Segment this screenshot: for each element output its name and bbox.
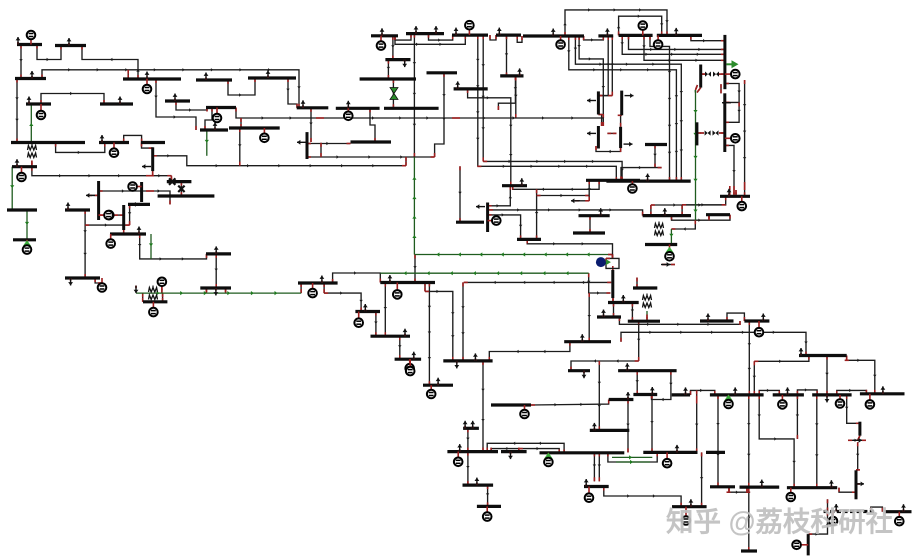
generator [110, 234, 112, 244]
bus [863, 510, 867, 513]
generator [396, 283, 398, 295]
generator [666, 452, 668, 463]
wire [608, 452, 657, 462]
load arrow [762, 319, 764, 322]
wire [489, 342, 570, 361]
generator [409, 359, 411, 368]
wire [370, 108, 375, 142]
wire [871, 507, 883, 512]
bus [360, 77, 416, 80]
wire [142, 143, 153, 149]
wire [607, 132, 616, 134]
wire [856, 483, 860, 485]
wire [727, 491, 751, 493]
generator [797, 544, 809, 546]
wire [333, 273, 381, 283]
wire [42, 70, 299, 108]
load arrow [146, 77, 148, 80]
wire [20, 45, 22, 79]
bus [657, 34, 702, 37]
wire [565, 10, 667, 36]
wire [527, 239, 612, 258]
bus [523, 34, 584, 37]
bus [706, 213, 730, 216]
bus [443, 359, 492, 362]
breaker X symbol [178, 186, 184, 192]
wire [839, 488, 856, 493]
load arrow [68, 43, 70, 46]
load arrow [600, 213, 602, 216]
bus (vertical) [597, 91, 600, 114]
load arrow [86, 194, 95, 196]
breaker X symbol [169, 178, 175, 184]
wire [429, 34, 453, 41]
generator [524, 405, 526, 414]
bus [824, 510, 828, 513]
bus [812, 393, 851, 396]
load arrow [734, 392, 736, 395]
green bowtie symbol [390, 88, 398, 94]
wire (green flow) [30, 104, 32, 143]
bus [110, 232, 146, 235]
wire [513, 180, 599, 189]
wire [32, 167, 150, 176]
load arrow [413, 357, 415, 360]
wire [124, 135, 142, 142]
bus [744, 319, 769, 322]
wire [176, 101, 207, 110]
generator [380, 36, 382, 46]
wire (green flow) [380, 272, 588, 274]
wire [589, 273, 611, 293]
wire [467, 452, 469, 486]
bus [584, 485, 609, 488]
wire [696, 85, 698, 90]
shunt reactor zigzag [655, 224, 664, 229]
wire (green flow) [206, 130, 208, 156]
bus [128, 203, 150, 206]
wire [127, 70, 129, 79]
wire [239, 128, 241, 166]
load arrow [626, 368, 628, 371]
load arrow [624, 143, 633, 145]
wire [88, 194, 99, 196]
wire [323, 283, 325, 293]
wire [320, 143, 322, 157]
bus [229, 126, 280, 129]
wire [307, 156, 435, 158]
load arrow [853, 439, 862, 441]
wire [691, 390, 715, 395]
bus (vertical) [723, 93, 726, 152]
wire [142, 293, 144, 302]
wire [517, 35, 522, 42]
bus [100, 102, 133, 105]
load arrow [215, 251, 217, 254]
bus [540, 451, 625, 454]
bus [645, 143, 667, 146]
svg-text:知乎 @荔枝科研社: 知乎 @荔枝科研社 [666, 506, 893, 537]
load arrow [903, 509, 905, 512]
bus [502, 184, 527, 187]
wire [808, 512, 827, 535]
load arrow [647, 179, 649, 182]
load arrow [28, 102, 30, 105]
generator [158, 278, 167, 287]
wire [697, 88, 701, 93]
generator [669, 245, 671, 257]
wire [324, 293, 361, 311]
generator [631, 181, 633, 188]
wire [156, 79, 196, 130]
bus [633, 286, 657, 289]
bus [248, 76, 296, 79]
wire [153, 156, 406, 166]
bus [590, 429, 630, 432]
wire [719, 73, 725, 75]
wire [748, 321, 750, 395]
wire [459, 166, 461, 222]
generator [101, 278, 103, 288]
wire [598, 95, 612, 97]
wire [644, 35, 725, 60]
load arrow [587, 100, 596, 102]
wire [598, 36, 608, 96]
wire [856, 442, 858, 470]
bus [13, 238, 36, 241]
wire [16, 79, 18, 143]
bus [672, 505, 707, 508]
wire [753, 361, 755, 395]
bus [298, 281, 338, 284]
load arrow [585, 484, 587, 487]
bus (vertical) [620, 91, 623, 116]
generator [358, 312, 360, 323]
generator [216, 108, 218, 119]
wire [691, 35, 725, 40]
wire [456, 118, 603, 126]
load arrow [437, 383, 439, 386]
wire [612, 298, 614, 302]
wire [579, 36, 603, 118]
bus [456, 221, 484, 224]
bus [837, 510, 841, 513]
wire [727, 313, 744, 321]
bus [196, 78, 232, 81]
load arrow [761, 485, 763, 488]
bus [371, 34, 398, 37]
load arrow [627, 397, 629, 400]
bus [463, 427, 479, 430]
bus [579, 214, 610, 217]
wire [310, 108, 312, 142]
wire [515, 77, 517, 119]
wire [846, 356, 848, 361]
wire [571, 361, 639, 371]
blue node dot [596, 257, 606, 267]
bus (vertical) [855, 470, 858, 499]
wire [476, 35, 478, 166]
wire [531, 400, 609, 406]
load arrow [267, 76, 269, 79]
wire [672, 215, 731, 221]
wire (green flow) [695, 205, 697, 220]
load arrow [302, 105, 304, 108]
load arrow [583, 371, 585, 374]
generator [781, 395, 783, 405]
wire [611, 36, 613, 96]
bus [598, 34, 613, 37]
load arrow [404, 60, 406, 63]
generator [146, 79, 148, 89]
bus (vertical) [807, 534, 810, 555]
wire [82, 46, 138, 80]
wire [31, 161, 33, 167]
wire [462, 282, 464, 361]
bus (vertical) [122, 205, 125, 230]
load arrow [707, 319, 709, 322]
bus (vertical) [306, 132, 309, 159]
bus [720, 195, 750, 198]
bus (vertical) [695, 122, 698, 145]
load arrow [16, 164, 18, 167]
bus [55, 44, 86, 47]
load arrow [826, 395, 828, 398]
load arrow [459, 449, 461, 452]
load arrow [690, 504, 692, 507]
wire [848, 439, 866, 441]
wire [464, 281, 611, 283]
wire [827, 499, 829, 511]
bus [773, 393, 804, 396]
load arrow [389, 280, 391, 283]
load arrow [364, 309, 366, 312]
wire [123, 223, 125, 234]
bus [501, 450, 527, 453]
wire [682, 204, 726, 206]
bus [857, 510, 861, 513]
load arrow [404, 334, 406, 337]
wire [150, 175, 171, 177]
wire [140, 234, 207, 259]
generator [725, 137, 736, 139]
generator [468, 25, 470, 35]
wire [593, 452, 595, 481]
generator [133, 186, 142, 188]
bus [706, 451, 725, 454]
wire [99, 190, 150, 192]
wire [482, 361, 484, 452]
bus (vertical) [611, 270, 614, 298]
bus [158, 194, 215, 197]
load arrow [622, 300, 624, 303]
bus [564, 340, 611, 343]
wire [847, 395, 860, 423]
bus [633, 393, 657, 396]
wire [483, 161, 622, 181]
load arrow [456, 361, 458, 364]
wire [651, 196, 726, 205]
generator [642, 26, 644, 36]
bus [165, 99, 190, 102]
wire [606, 258, 619, 268]
wire [797, 390, 817, 395]
wire [728, 487, 730, 492]
wire (green flow) [150, 234, 152, 259]
load arrow [587, 132, 596, 134]
wire [725, 145, 734, 190]
bus [830, 510, 834, 513]
wire (green flow) [616, 461, 650, 463]
bus [517, 238, 541, 241]
wire [41, 94, 104, 105]
bus [672, 393, 690, 396]
generator [547, 453, 549, 462]
generator [457, 452, 459, 462]
wire [598, 361, 600, 430]
wire [744, 80, 746, 186]
load arrow [593, 428, 595, 431]
bus [384, 107, 439, 110]
wire [487, 485, 489, 506]
wire [650, 205, 652, 216]
load arrow [581, 339, 583, 342]
wire [569, 36, 677, 181]
wire [300, 283, 302, 293]
load arrow [135, 286, 137, 289]
wire [759, 390, 779, 395]
generator [790, 488, 792, 497]
wire [392, 79, 394, 108]
wire [215, 254, 217, 288]
bus [385, 58, 410, 61]
load arrow [132, 203, 141, 205]
wire (green flow) [670, 229, 672, 245]
bus [26, 102, 51, 105]
wire [375, 312, 377, 337]
generator [347, 108, 349, 116]
bus [15, 77, 46, 80]
bus [628, 320, 660, 323]
generator [839, 395, 841, 404]
wire [477, 166, 616, 181]
wire [536, 189, 538, 239]
load arrow [855, 483, 864, 485]
wire [384, 283, 386, 337]
wire [735, 190, 737, 196]
bus [799, 354, 847, 357]
load arrow [510, 452, 512, 455]
bus [850, 510, 854, 513]
bus [568, 369, 590, 372]
bus [618, 369, 677, 372]
load arrow [119, 102, 121, 105]
wire [575, 200, 589, 202]
wire [414, 255, 416, 283]
breaker bowtie [705, 72, 708, 77]
wire [575, 36, 681, 181]
load arrow [552, 34, 554, 37]
bus [355, 310, 380, 313]
wire [725, 84, 739, 103]
wire [621, 168, 662, 181]
wire [612, 268, 614, 270]
wire [816, 395, 818, 488]
bus [741, 549, 757, 552]
wire [729, 186, 731, 196]
wire [837, 390, 867, 395]
generator [898, 512, 900, 522]
wire [467, 428, 469, 451]
generator [588, 487, 590, 498]
wire [596, 146, 621, 152]
bus [297, 106, 329, 109]
load arrow [17, 42, 19, 45]
wire (green flow) [415, 254, 608, 256]
wire (green flow) [646, 311, 648, 315]
generator [758, 321, 760, 332]
wire [748, 487, 750, 551]
wire [636, 278, 638, 289]
load arrow [457, 86, 459, 89]
bus (vertical) [140, 182, 143, 202]
wire [85, 224, 130, 226]
wire [701, 452, 703, 506]
wire [236, 108, 320, 119]
wire [150, 191, 170, 204]
load arrow [474, 358, 476, 361]
wire [488, 186, 511, 206]
wire [399, 336, 401, 359]
bus [423, 384, 453, 387]
wire [619, 16, 662, 35]
load arrow [606, 33, 608, 36]
load arrow [519, 73, 521, 76]
generator [312, 283, 314, 293]
bus [860, 392, 905, 395]
wire [598, 452, 600, 481]
bus [491, 403, 531, 406]
wire [152, 171, 154, 176]
load arrow [435, 31, 437, 33]
wire (green flow) [695, 90, 697, 205]
load arrow [174, 99, 176, 102]
bus [200, 286, 231, 289]
wire [826, 356, 828, 395]
wire [162, 293, 164, 302]
wire [636, 371, 638, 395]
wire [588, 293, 590, 342]
bus [573, 231, 605, 234]
load arrow [651, 392, 653, 395]
generator [113, 143, 115, 153]
bus (vertical) [97, 181, 100, 220]
bus (vertical) [151, 147, 154, 171]
load arrow [722, 102, 731, 104]
wire [114, 214, 124, 216]
wire [56, 143, 105, 153]
wire [392, 36, 394, 60]
wire [487, 443, 564, 453]
load arrow [521, 183, 523, 186]
bus [586, 179, 640, 182]
wire [701, 73, 705, 75]
load arrow [571, 200, 580, 202]
bus [395, 358, 422, 361]
bus [447, 450, 498, 453]
shunt reactor zigzag [28, 146, 37, 151]
wire [84, 210, 86, 278]
